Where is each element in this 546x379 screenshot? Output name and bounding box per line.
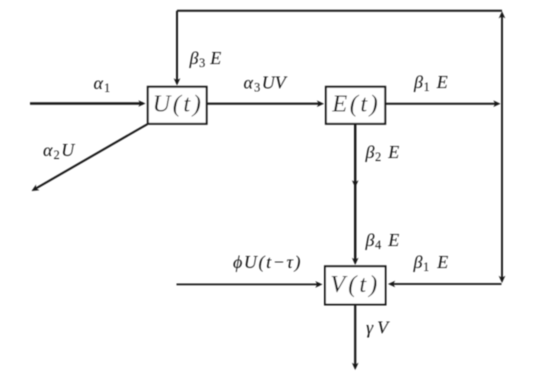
arrowhead alpha2U diagonal — [30, 185, 40, 194]
arrowhead phi into V — [315, 281, 322, 288]
box E(t) — [326, 87, 385, 124]
arrowhead beta3E down into U — [174, 78, 181, 85]
wire right vertical — [501, 14, 503, 281]
svg-text:V(t): V(t) — [330, 271, 380, 298]
arrowhead alpha1 — [138, 100, 145, 107]
wire gamma V output — [354, 304, 356, 367]
wire alpha2U diagonal — [35, 124, 148, 189]
wire beta3 vertical drop into U — [176, 11, 178, 84]
box V(t) — [325, 266, 386, 304]
arrowhead beta1E left into V — [388, 281, 395, 288]
wire phi input to V — [177, 283, 321, 285]
svg-text:β4E: β4E — [365, 230, 400, 252]
arrowhead gammaV out — [352, 363, 359, 370]
svg-text:α1: α1 — [94, 73, 111, 95]
svg-text:ϕU(t−τ): ϕU(t−τ) — [233, 252, 301, 273]
svg-text:β1E: β1E — [413, 72, 448, 94]
arrowhead beta1E top — [493, 100, 500, 107]
wire alpha3UV U to E — [207, 103, 322, 105]
svg-text:α2U: α2U — [43, 140, 75, 162]
arrowhead beta2E mid — [352, 180, 359, 187]
svg-text:β2E: β2E — [365, 142, 400, 164]
wire beta1E E to right — [385, 103, 498, 105]
wire beta1E right into V — [391, 283, 502, 285]
svg-text:γV: γV — [366, 318, 390, 338]
svg-text:β1E: β1E — [413, 252, 449, 274]
svg-text:β3E: β3E — [189, 48, 222, 70]
wire top feedback horizontal — [177, 10, 502, 12]
svg-text:E(t): E(t) — [331, 91, 380, 118]
wire alpha1 input — [30, 102, 143, 104]
box U(t) — [148, 87, 207, 124]
svg-text:U(t): U(t) — [153, 91, 204, 118]
arrowhead down right vertical — [499, 276, 506, 283]
svg-text:α3UV: α3UV — [244, 73, 288, 95]
wire E down to V — [354, 124, 356, 263]
arrowhead up top right — [499, 11, 506, 18]
arrowhead alpha3UV — [317, 100, 324, 107]
arrowhead beta4E into V — [352, 258, 359, 265]
